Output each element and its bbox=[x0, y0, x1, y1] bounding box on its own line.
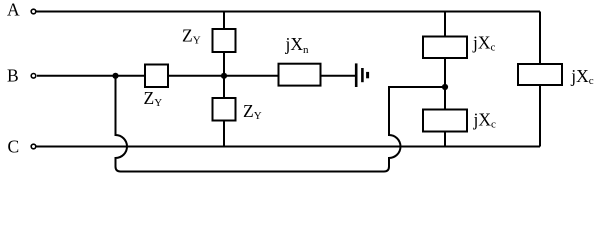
svg-text:A: A bbox=[7, 0, 20, 19]
wire: B drop with hop over phase C bbox=[116, 76, 128, 167]
junction dot: capacitor midpoint bbox=[442, 84, 448, 90]
svg-text:jXc: jXc bbox=[472, 32, 496, 53]
wire: jXn to ground bbox=[321, 75, 356, 77]
wire: riser with hop over phase C to capacitor midpoint bbox=[389, 87, 445, 167]
resistor Z_Y (C-phase, vertical box) bbox=[213, 98, 236, 121]
capacitor jXc (A-C box) bbox=[518, 64, 562, 85]
junction dot: B tap bbox=[112, 73, 118, 79]
svg-text:jXc: jXc bbox=[570, 66, 594, 87]
wire: bottom rail bbox=[116, 164, 390, 172]
resistor Z_Y (A-phase, vertical box) bbox=[213, 29, 236, 52]
junction dot: node N bbox=[221, 73, 227, 79]
wire: capacitor chain A to C bbox=[444, 12, 446, 147]
svg-text:jXc: jXc bbox=[473, 110, 497, 131]
terminal A bbox=[31, 9, 36, 14]
svg-text:ZY: ZY bbox=[243, 101, 262, 122]
svg-text:C: C bbox=[8, 137, 20, 157]
capacitor jXc (B-C box) bbox=[423, 110, 467, 132]
wire: Z_Y branch from A down to node N bbox=[223, 12, 225, 76]
wire: phase C bus bbox=[37, 146, 541, 148]
svg-text:jXn: jXn bbox=[285, 34, 310, 56]
wire: phase A bus bbox=[37, 11, 541, 13]
terminal C bbox=[31, 144, 36, 149]
reactor jXn (neutral grounding box) bbox=[279, 64, 321, 86]
svg-text:B: B bbox=[7, 65, 19, 85]
ground (earth symbol, 3 bars) bbox=[356, 63, 367, 87]
svg-text:ZY: ZY bbox=[182, 26, 201, 47]
terminal B bbox=[31, 74, 36, 79]
wire: phase B bus bbox=[37, 75, 279, 77]
resistor Z_Y (B-phase, series box) bbox=[145, 65, 168, 88]
capacitor jXc (A-B box) bbox=[423, 37, 467, 59]
svg-text:ZY: ZY bbox=[144, 88, 163, 109]
wire: Z_Y branch from node N down to C bbox=[223, 76, 225, 147]
wire: right vertical A-to-C branch bbox=[539, 12, 541, 147]
